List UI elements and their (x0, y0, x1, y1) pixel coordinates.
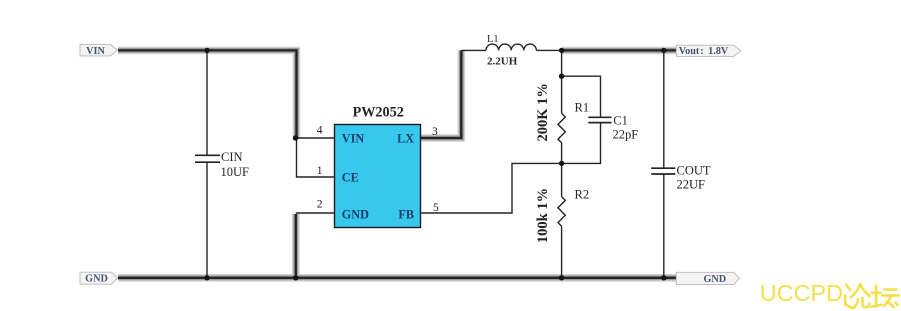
svg-text:LX: LX (397, 132, 414, 146)
svg-text:COUT: COUT (677, 164, 711, 178)
svg-text:GND: GND (85, 274, 108, 285)
svg-text:L1: L1 (487, 34, 499, 45)
svg-text:10UF: 10UF (221, 165, 250, 179)
svg-text:2.2UH: 2.2UH (487, 56, 518, 68)
svg-text:R2: R2 (575, 188, 590, 202)
svg-text:100k 1%: 100k 1% (535, 188, 551, 243)
svg-text:UCCPD: UCCPD (760, 280, 843, 306)
svg-text:5: 5 (433, 202, 439, 214)
svg-text:C1: C1 (613, 114, 628, 128)
svg-text:VIN: VIN (342, 132, 365, 146)
svg-text:2: 2 (317, 199, 323, 211)
svg-text:4: 4 (317, 124, 323, 136)
svg-text:GND: GND (342, 208, 369, 222)
svg-text:PW2052: PW2052 (353, 105, 404, 121)
svg-text:22pF: 22pF (613, 128, 639, 142)
svg-text:R1: R1 (575, 100, 590, 114)
svg-text:3: 3 (432, 126, 438, 138)
svg-text:200K 1%: 200K 1% (535, 83, 551, 141)
svg-text:VIN: VIN (86, 46, 105, 57)
svg-text:CE: CE (342, 171, 359, 185)
svg-text:22UF: 22UF (677, 178, 706, 192)
svg-text:GND: GND (703, 274, 726, 285)
svg-text:CIN: CIN (221, 150, 243, 164)
svg-text:1: 1 (317, 165, 323, 177)
svg-text:FB: FB (398, 208, 414, 222)
